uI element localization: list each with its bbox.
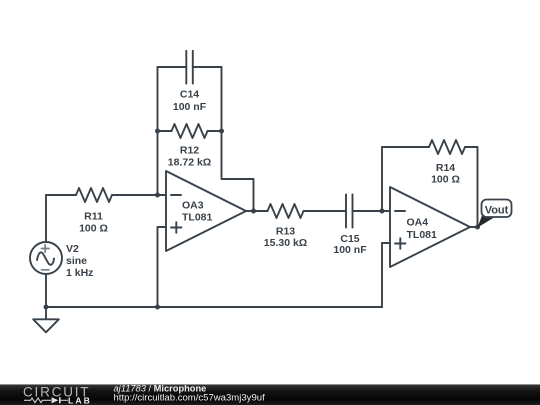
ground xyxy=(33,307,59,332)
node: R11 / OA3 inverting input junction xyxy=(155,193,160,198)
node: OA3 plus input ground junction xyxy=(155,305,160,310)
wire: C14 right lead xyxy=(193,66,222,68)
svg-text:15.30 kΩ: 15.30 kΩ xyxy=(264,237,307,249)
wire: R11 to OA3 inverting input xyxy=(112,194,166,196)
svg-text:100 Ω: 100 Ω xyxy=(431,174,460,186)
capacitor C15 xyxy=(346,195,353,228)
svg-text:18.72 kΩ: 18.72 kΩ xyxy=(168,157,211,169)
wire: feedback right vertical with jog to OA3 output xyxy=(222,67,254,211)
capacitor C14 xyxy=(186,51,193,84)
node: OA4 output junction xyxy=(475,225,480,230)
footer text xyxy=(114,383,266,403)
op-amp OA4 xyxy=(390,187,470,267)
label OA4 xyxy=(407,217,438,242)
node: R12 right junction xyxy=(219,129,224,134)
wire: OA3 non-inverting input to ground rail xyxy=(158,227,167,307)
svg-text:V2: V2 xyxy=(66,243,79,255)
node: R12 left junction xyxy=(155,129,160,134)
wire: V2 bottom lead to ground rail xyxy=(45,274,47,307)
resistor R13 xyxy=(268,204,304,218)
wire: R13 to C15 xyxy=(304,210,347,212)
wire: OA3 output to R13 xyxy=(246,210,268,212)
wire: ground rail xyxy=(46,306,382,308)
resistor R11 xyxy=(76,188,112,202)
label C15 value xyxy=(333,233,367,256)
wire: R12 right lead xyxy=(208,130,222,132)
wire: C14 left lead xyxy=(158,66,187,68)
wire: OA4 feedback left vertical xyxy=(382,147,429,211)
label R12 value xyxy=(168,145,211,169)
label R14 value xyxy=(431,162,460,186)
label R13 value xyxy=(264,226,307,250)
svg-text:TL081: TL081 xyxy=(407,229,438,241)
node: V2 ground junction xyxy=(44,305,49,310)
node Vout flag xyxy=(478,200,512,228)
label OA3 xyxy=(182,200,213,224)
op-amp OA3 xyxy=(166,171,246,251)
wire: OA4 non-inverting input to ground rail xyxy=(382,243,390,307)
svg-text:OA4: OA4 xyxy=(407,217,429,229)
label R11 value xyxy=(79,211,108,235)
wire: C15 to OA4 inverting input xyxy=(353,210,391,212)
voltage source V2 xyxy=(30,242,62,274)
node: OA3 output junction xyxy=(251,209,256,214)
node: C15 / OA4 inverting input junction xyxy=(380,209,385,214)
svg-text:C14: C14 xyxy=(180,89,199,101)
wire: R14 to OA4 output xyxy=(465,147,478,227)
resistor R14 xyxy=(429,140,465,154)
svg-text:sine: sine xyxy=(66,255,87,267)
svg-text:R13: R13 xyxy=(276,226,295,238)
wire: R12 left lead xyxy=(158,130,172,132)
svg-text:LAB: LAB xyxy=(68,395,92,405)
wire: V2 top lead to R11 row xyxy=(46,195,76,242)
svg-text:1 kHz: 1 kHz xyxy=(66,267,93,279)
svg-text:OA3: OA3 xyxy=(182,200,204,212)
svg-text:R14: R14 xyxy=(436,162,455,174)
svg-text:TL081: TL081 xyxy=(182,212,213,224)
svg-text:http://circuitlab.com/c57wa3mj: http://circuitlab.com/c57wa3mj3y9uf xyxy=(114,392,266,403)
label C14 value xyxy=(173,89,207,114)
label V2 value xyxy=(66,243,93,279)
footer bar xyxy=(0,384,540,405)
svg-text:100 nF: 100 nF xyxy=(333,244,367,256)
svg-text:R11: R11 xyxy=(84,211,103,223)
svg-text:Vout: Vout xyxy=(485,204,509,216)
resistor R12 xyxy=(172,124,208,138)
svg-text:100 Ω: 100 Ω xyxy=(79,222,108,234)
wire: feedback left vertical xyxy=(157,67,159,195)
svg-text:100 nF: 100 nF xyxy=(173,101,207,113)
svg-text:R12: R12 xyxy=(180,145,199,157)
wire: OA4 output to node xyxy=(470,226,478,228)
CircuitLab logo xyxy=(23,385,92,405)
